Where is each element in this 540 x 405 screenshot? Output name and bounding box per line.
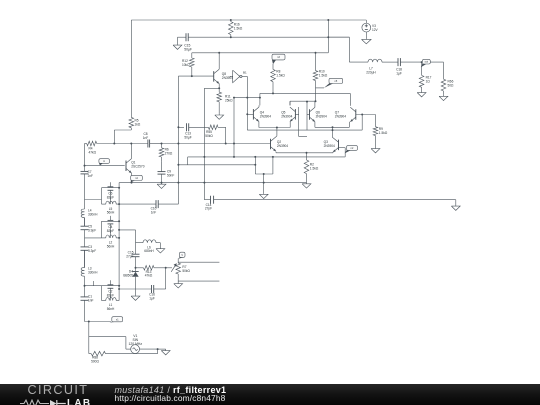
svg-text:50kΩ: 50kΩ <box>205 134 213 138</box>
svg-text:3.3pF: 3.3pF <box>88 249 96 253</box>
svg-text:50Ω: 50Ω <box>448 83 455 87</box>
svg-text:BB505: BB505 <box>123 273 133 277</box>
svg-text:3.9pF: 3.9pF <box>88 228 96 232</box>
svg-text:2SC2570: 2SC2570 <box>131 164 145 168</box>
svg-text:330nH: 330nH <box>88 270 98 274</box>
svg-text:50nF: 50nF <box>167 173 174 177</box>
svg-text:47kΩ: 47kΩ <box>89 150 97 154</box>
svg-text:1.5kΩ: 1.5kΩ <box>234 26 243 30</box>
svg-text:2N3904: 2N3904 <box>260 114 271 118</box>
svg-text:1.5kΩ: 1.5kΩ <box>310 166 319 170</box>
svg-text:1.5kΩ: 1.5kΩ <box>319 73 328 77</box>
svg-text:2N3904: 2N3904 <box>316 114 327 118</box>
svg-text:2N3904: 2N3904 <box>281 114 292 118</box>
svg-text:1.5kΩ: 1.5kΩ <box>379 131 388 135</box>
svg-text:82pF: 82pF <box>107 195 114 199</box>
svg-text:56nH: 56nH <box>107 244 115 248</box>
svg-text:2N3904: 2N3904 <box>335 114 346 118</box>
svg-text:56nH: 56nH <box>107 211 115 215</box>
svg-text:680nH: 680nH <box>144 249 154 253</box>
svg-text:82pF: 82pF <box>107 293 114 297</box>
svg-text:1kΩ: 1kΩ <box>135 122 141 126</box>
svg-text:50µF: 50µF <box>184 48 192 52</box>
svg-text:27pF: 27pF <box>126 254 133 258</box>
svg-text:330nH: 330nH <box>88 212 98 216</box>
svg-text:1nF: 1nF <box>88 174 94 178</box>
svg-text:27pF: 27pF <box>205 207 212 211</box>
svg-text:12V: 12V <box>372 28 379 32</box>
svg-text:1µF: 1µF <box>149 296 155 300</box>
svg-text:220µH: 220µH <box>366 70 376 74</box>
svg-text:82pF: 82pF <box>107 229 114 233</box>
svg-text:500Ω: 500Ω <box>91 359 99 363</box>
svg-text:B1: B1 <box>243 71 247 75</box>
svg-text:2N3904: 2N3904 <box>277 144 288 148</box>
svg-text:out: out <box>425 61 429 64</box>
svg-text:270Ω: 270Ω <box>165 151 173 155</box>
svg-text:25kΩ: 25kΩ <box>225 98 233 102</box>
svg-text:2N3904: 2N3904 <box>324 144 335 148</box>
svg-text:50kΩ: 50kΩ <box>182 269 190 273</box>
svg-text:1Ω: 1Ω <box>426 79 431 83</box>
svg-text:120 MHz: 120 MHz <box>129 342 143 346</box>
svg-text:1nF: 1nF <box>151 210 157 214</box>
svg-text:1.5kΩ: 1.5kΩ <box>276 73 285 77</box>
svg-text:1µF: 1µF <box>396 71 402 75</box>
svg-text:50µF: 50µF <box>184 135 191 139</box>
svg-text:1nF: 1nF <box>143 136 149 140</box>
svg-text:56nH: 56nH <box>107 307 115 311</box>
svg-text:10kΩ: 10kΩ <box>182 63 190 67</box>
svg-text:1nF: 1nF <box>88 298 94 302</box>
svg-text:47kΩ: 47kΩ <box>145 274 153 278</box>
